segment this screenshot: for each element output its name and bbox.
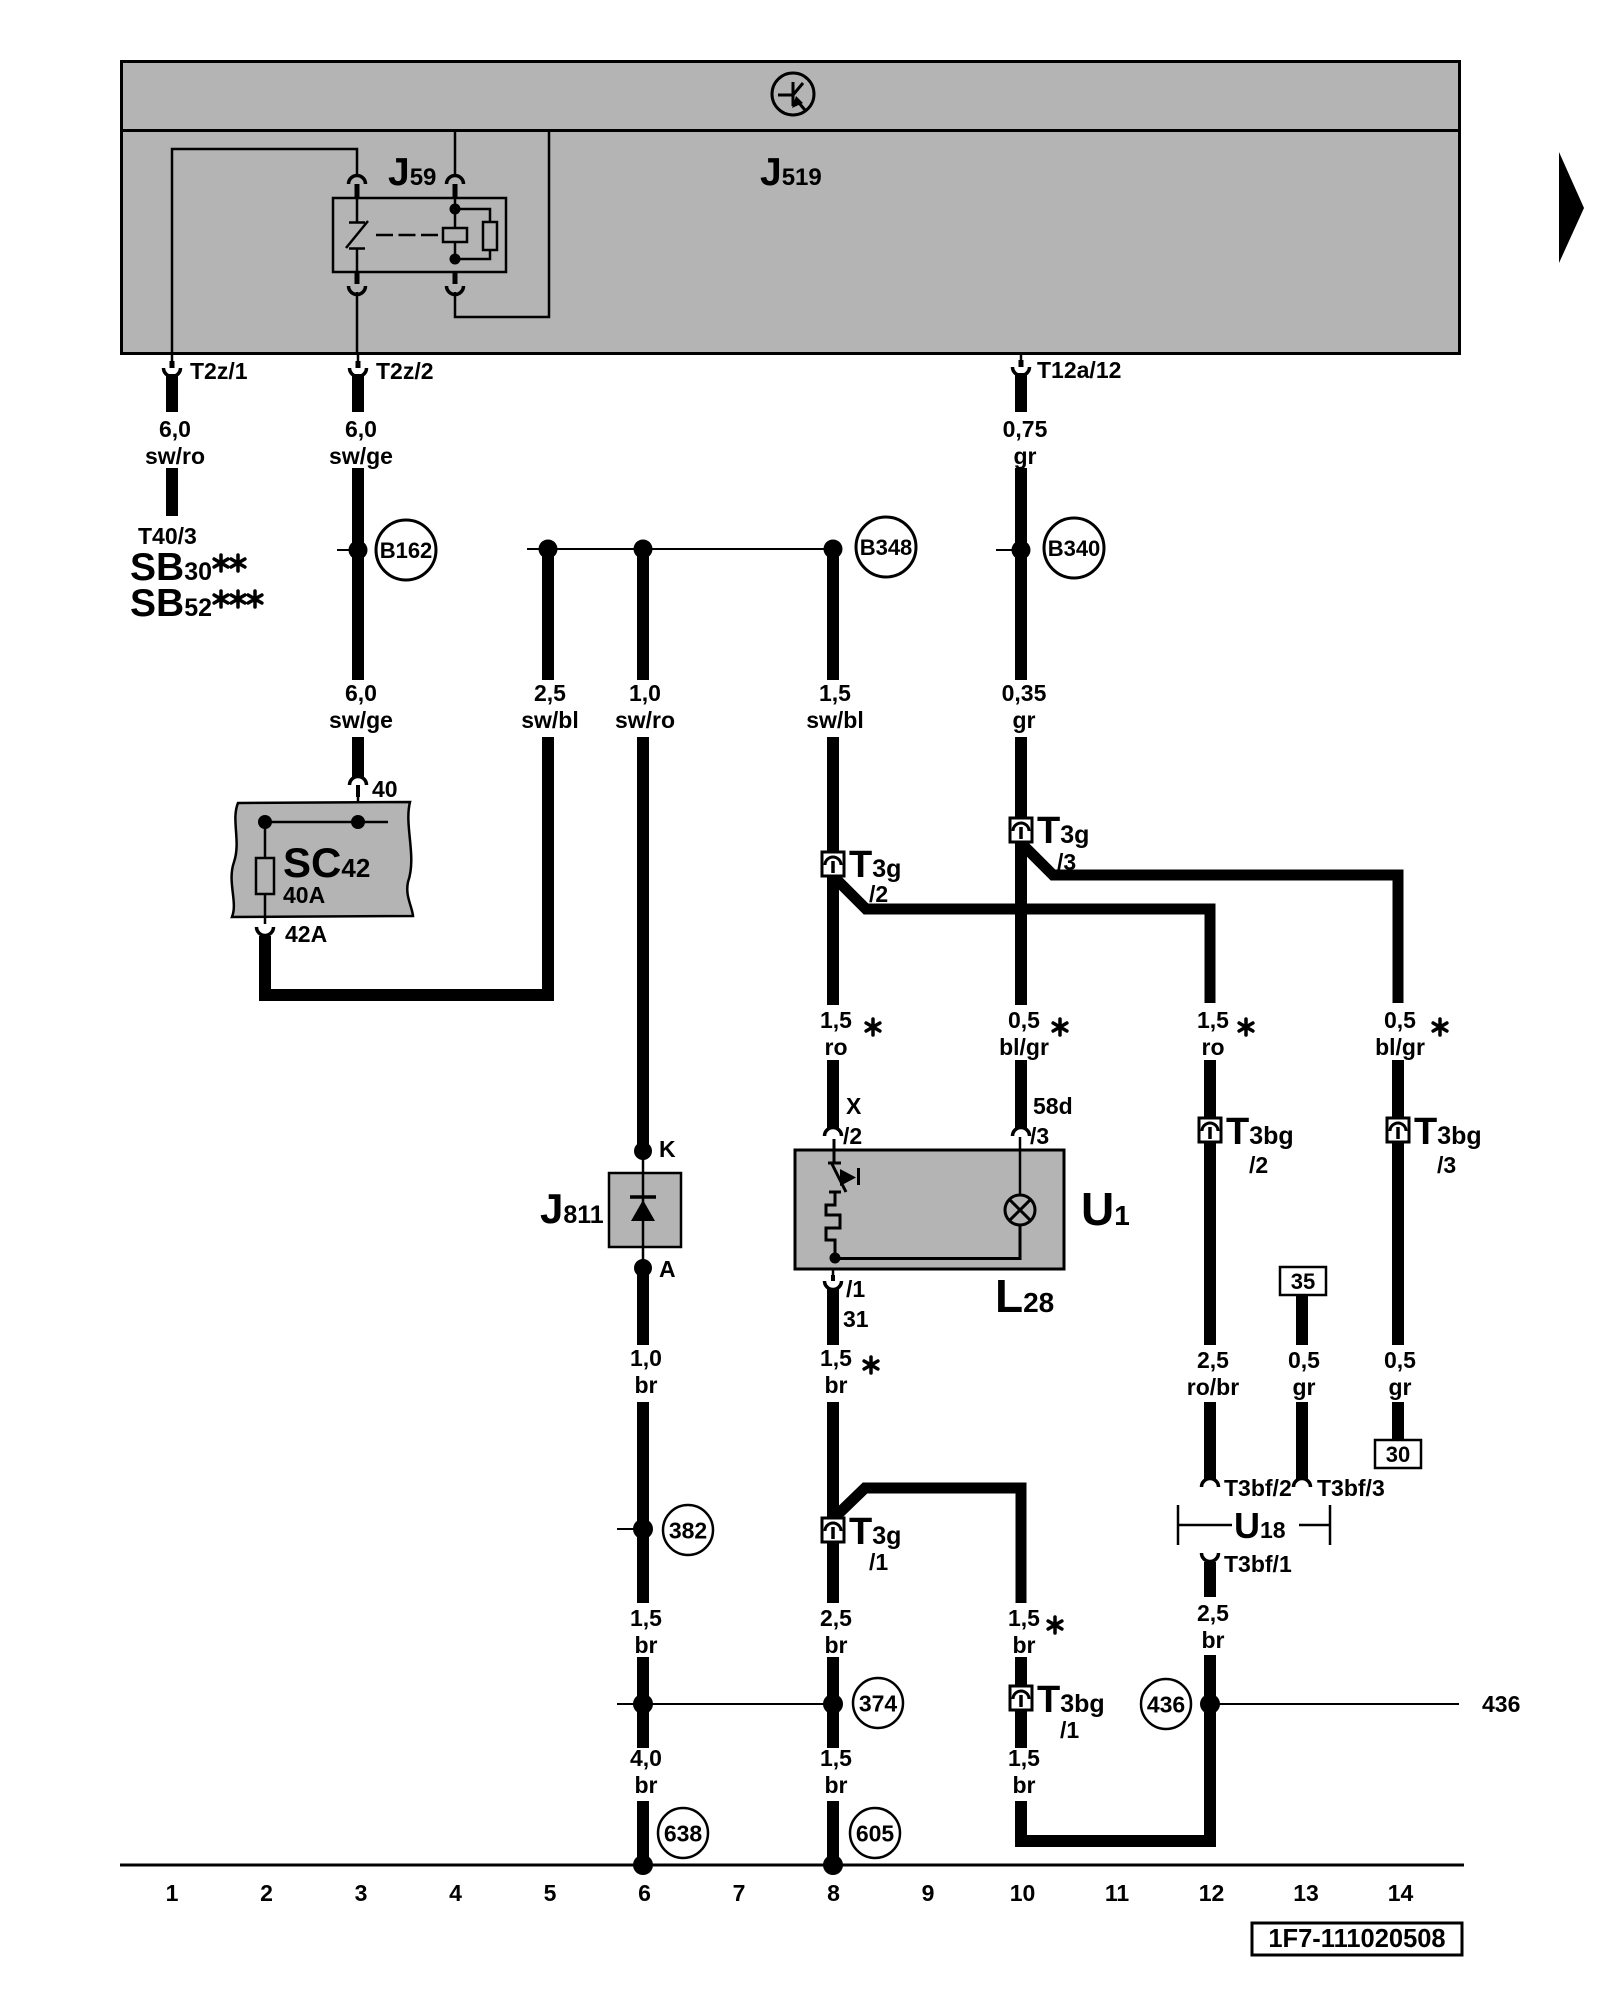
svg-text:/2: /2 (1249, 1152, 1268, 1178)
svg-text:/1: /1 (1060, 1717, 1079, 1743)
svg-text:4: 4 (449, 1880, 462, 1906)
svg-text:gr: gr (1293, 1374, 1316, 1400)
svg-text:40A: 40A (283, 882, 325, 908)
svg-text:9: 9 (922, 1880, 935, 1906)
svg-text:42A: 42A (285, 921, 327, 947)
svg-text:1,5: 1,5 (819, 680, 851, 706)
svg-text:sw/bl: sw/bl (521, 707, 579, 733)
svg-text:2: 2 (260, 1880, 273, 1906)
svg-text:1,5: 1,5 (1197, 1007, 1229, 1033)
svg-text:11: 11 (1105, 1880, 1130, 1906)
svg-text:6,0: 6,0 (345, 416, 377, 442)
svg-text:T3bf/3: T3bf/3 (1317, 1475, 1385, 1501)
svg-text:6: 6 (638, 1880, 651, 1906)
svg-text:sw/bl: sw/bl (806, 707, 864, 733)
svg-text:14: 14 (1388, 1880, 1414, 1906)
svg-text:13: 13 (1293, 1880, 1319, 1906)
svg-text:A: A (659, 1256, 676, 1282)
svg-text:T2z/2: T2z/2 (376, 358, 434, 384)
svg-text:K: K (659, 1136, 676, 1162)
svg-text:0,35: 0,35 (1002, 680, 1047, 706)
svg-text:5: 5 (544, 1880, 557, 1906)
svg-text:gr: gr (1389, 1374, 1412, 1400)
svg-text:ro/br: ro/br (1187, 1374, 1239, 1400)
svg-text:B348: B348 (860, 535, 913, 560)
svg-text:sw/ro: sw/ro (615, 707, 675, 733)
svg-text:0,5: 0,5 (1384, 1347, 1416, 1373)
svg-text:2,5: 2,5 (1197, 1600, 1229, 1626)
svg-text:1,5: 1,5 (820, 1745, 852, 1771)
svg-text:1,5: 1,5 (630, 1605, 662, 1631)
svg-text:/3: /3 (1030, 1123, 1049, 1149)
svg-text:/2: /2 (843, 1123, 862, 1149)
svg-text:gr: gr (1014, 443, 1037, 469)
svg-text:2,5: 2,5 (534, 680, 566, 706)
svg-text:1,5: 1,5 (820, 1345, 852, 1371)
svg-text:0,5: 0,5 (1008, 1007, 1040, 1033)
svg-text:/1: /1 (846, 1276, 865, 1302)
svg-text:br: br (825, 1632, 848, 1658)
svg-text:B340: B340 (1048, 536, 1101, 561)
svg-text:T2z/1: T2z/1 (190, 358, 248, 384)
svg-text:6,0: 6,0 (345, 680, 377, 706)
svg-text:br: br (1013, 1772, 1036, 1798)
svg-text:T3bf/2: T3bf/2 (1224, 1475, 1292, 1501)
svg-text:bl/gr: bl/gr (1375, 1034, 1425, 1060)
svg-text:gr: gr (1013, 707, 1036, 733)
svg-text:382: 382 (669, 1517, 707, 1543)
svg-text:1F7-111020508: 1F7-111020508 (1268, 1925, 1445, 1953)
svg-text:3: 3 (355, 1880, 368, 1906)
svg-text:1,0: 1,0 (630, 1345, 662, 1371)
svg-text:ro: ro (1202, 1034, 1225, 1060)
svg-text:8: 8 (827, 1880, 840, 1906)
svg-text:br: br (1202, 1627, 1225, 1653)
svg-text:br: br (825, 1772, 848, 1798)
svg-text:1,0: 1,0 (629, 680, 661, 706)
svg-text:6,0: 6,0 (159, 416, 191, 442)
svg-text:X: X (846, 1093, 862, 1119)
svg-text:30: 30 (1386, 1442, 1410, 1467)
svg-text:0,75: 0,75 (1003, 416, 1048, 442)
svg-text:br: br (1013, 1632, 1036, 1658)
svg-text:436: 436 (1147, 1691, 1185, 1717)
svg-text:T12a/12: T12a/12 (1037, 357, 1121, 383)
svg-text:bl/gr: bl/gr (999, 1034, 1049, 1060)
svg-text:/3: /3 (1437, 1152, 1456, 1178)
svg-text:/2: /2 (869, 881, 888, 907)
svg-text:2,5: 2,5 (820, 1605, 852, 1631)
svg-text:ro: ro (825, 1034, 848, 1060)
svg-text:/1: /1 (869, 1549, 888, 1575)
svg-text:T3bf/1: T3bf/1 (1224, 1551, 1292, 1577)
svg-text:0,5: 0,5 (1384, 1007, 1416, 1033)
svg-text:1,5: 1,5 (1008, 1605, 1040, 1631)
svg-text:/3: /3 (1057, 849, 1076, 875)
svg-text:58d: 58d (1033, 1093, 1073, 1119)
svg-text:sw/ro: sw/ro (145, 443, 205, 469)
svg-text:br: br (635, 1772, 658, 1798)
svg-text:br: br (635, 1372, 658, 1398)
svg-text:638: 638 (664, 1820, 703, 1846)
svg-text:br: br (825, 1372, 848, 1398)
svg-text:sw/ge: sw/ge (329, 707, 393, 733)
svg-text:B162: B162 (380, 538, 433, 563)
svg-text:7: 7 (733, 1880, 746, 1906)
svg-text:12: 12 (1199, 1880, 1225, 1906)
svg-text:1: 1 (166, 1880, 179, 1906)
svg-text:4,0: 4,0 (630, 1745, 662, 1771)
svg-text:31: 31 (843, 1306, 869, 1332)
svg-text:35: 35 (1291, 1269, 1315, 1294)
svg-text:436: 436 (1482, 1691, 1520, 1717)
svg-text:1,5: 1,5 (820, 1007, 852, 1033)
svg-text:sw/ge: sw/ge (329, 443, 393, 469)
svg-text:br: br (635, 1632, 658, 1658)
svg-text:2,5: 2,5 (1197, 1347, 1229, 1373)
svg-text:0,5: 0,5 (1288, 1347, 1320, 1373)
svg-text:10: 10 (1010, 1880, 1036, 1906)
svg-text:374: 374 (859, 1690, 898, 1716)
svg-text:1,5: 1,5 (1008, 1745, 1040, 1771)
svg-text:605: 605 (856, 1820, 895, 1846)
svg-text:40: 40 (372, 776, 398, 802)
